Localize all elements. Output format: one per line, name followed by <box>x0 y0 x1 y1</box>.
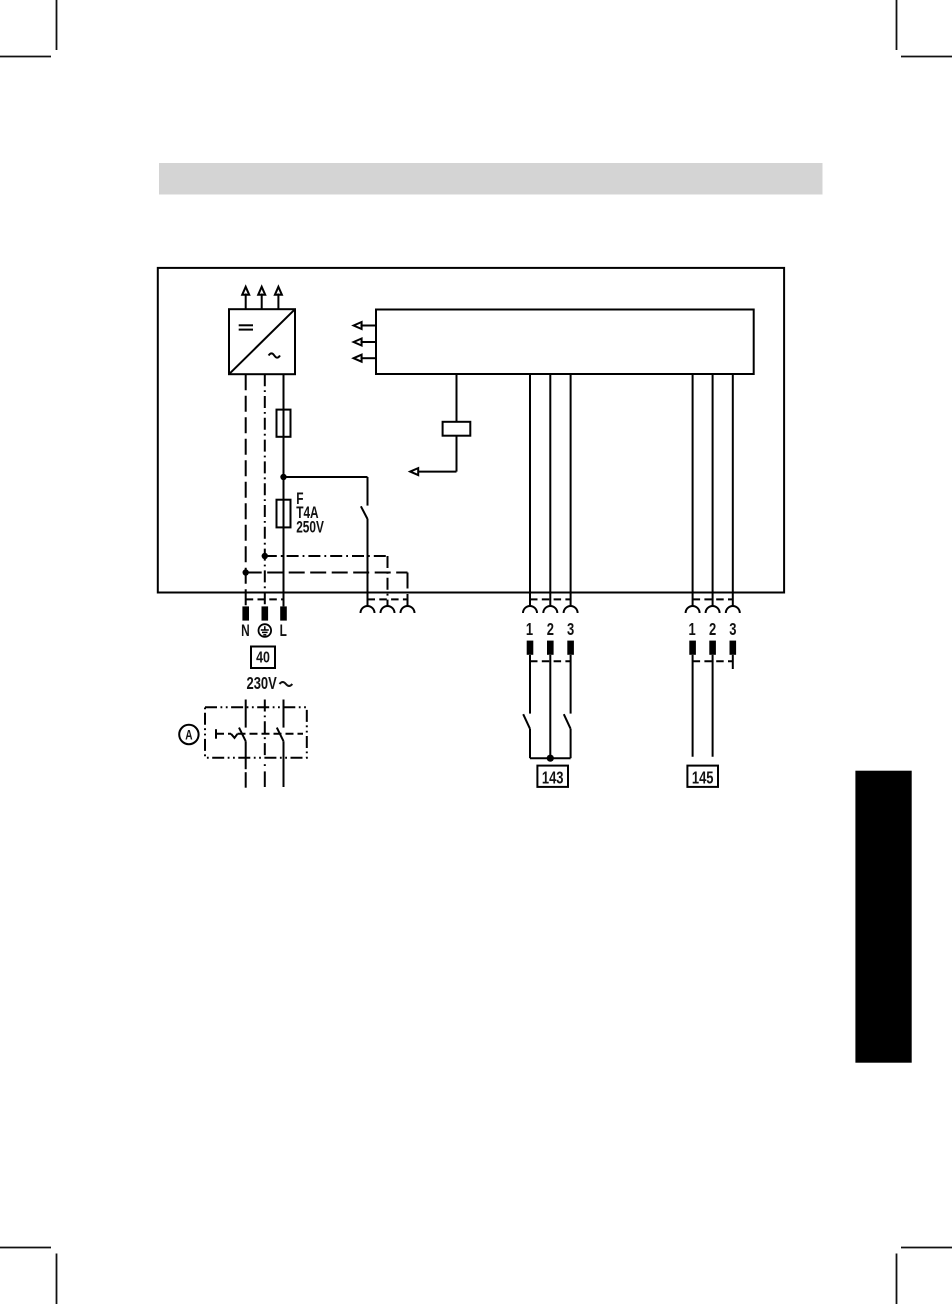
svg-text:L: L <box>280 622 287 640</box>
svg-text:1: 1 <box>688 620 695 640</box>
svg-text:230V: 230V <box>247 674 278 694</box>
svg-text:250V: 250V <box>296 519 324 537</box>
svg-text:2: 2 <box>709 620 716 640</box>
svg-text:3: 3 <box>567 620 574 640</box>
svg-text:145: 145 <box>692 768 714 788</box>
svg-text:1: 1 <box>526 620 533 640</box>
svg-text:2: 2 <box>547 620 554 640</box>
svg-text:3: 3 <box>729 620 736 640</box>
svg-text:A: A <box>185 727 193 743</box>
svg-text:143: 143 <box>542 768 564 788</box>
svg-text:N: N <box>241 622 250 640</box>
svg-text:40: 40 <box>256 648 270 666</box>
